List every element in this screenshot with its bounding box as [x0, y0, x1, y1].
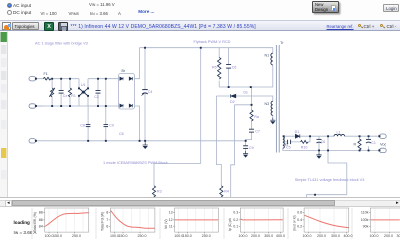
wire: output cap C6b stubs — [318, 136, 320, 150]
output capacitor C12 (polarized) — [366, 139, 371, 143]
junction at (60.2,105.1) — [60, 105, 62, 107]
capacitor CX1 — [59, 91, 64, 94]
svg-text:Tr: Tr — [280, 41, 284, 45]
wire: varistor stubs — [51, 79, 53, 106]
junction at (97.1,105.1) — [97, 105, 99, 107]
svg-text:11: 11 — [169, 224, 173, 228]
svg-text:150.0: 150.0 — [119, 234, 128, 238]
svg-text:R10: R10 — [301, 145, 308, 149]
plot 6: fs (Hz) — [361, 208, 400, 238]
wire: input bottom rail — [37, 105, 119, 107]
junction at (104.9,105.1) — [105, 105, 107, 107]
load resistor R11 — [358, 139, 361, 150]
junction at (282.7,135.3) — [283, 135, 285, 137]
ground (aux winding) — [270, 118, 275, 125]
snubber resistor R10 — [301, 140, 309, 143]
svg-text:0.2: 0.2 — [233, 218, 238, 222]
svg-text:0.2: 0.2 — [297, 224, 302, 228]
wire: bridge plus output to DC rail — [134, 48, 139, 79]
svg-text:Cx: Cx — [63, 94, 68, 98]
wire: input top rail — [51, 78, 79, 80]
varistor RV1 — [49, 88, 55, 97]
svg-text:88: 88 — [39, 211, 43, 215]
wire: Ra C7 chain down to ground — [246, 87, 252, 141]
ground (primary rail) — [143, 142, 148, 149]
ground (output cap) — [316, 152, 321, 159]
svg-text:R4: R4 — [224, 190, 229, 194]
wire: clamp node line to primary bottom — [219, 65, 273, 87]
aux winding N3 — [271, 101, 273, 115]
svg-text:Vo(: Vo( — [380, 142, 387, 147]
top parameter bar — [0, 0, 400, 20]
wire: choke stubs — [79, 79, 88, 106]
wire: cap CX1 stubs — [60, 79, 62, 106]
wire: clamp cap C6 stubs — [228, 48, 230, 87]
resistor Ra — [250, 110, 253, 121]
toolbar row — [0, 20, 400, 31]
junction at (314.1,193.8) — [314, 194, 316, 196]
capacitor C8 (Y-cap) — [86, 125, 91, 127]
junction at (367.6,135.3) — [368, 135, 370, 137]
svg-text:200.0: 200.0 — [384, 234, 393, 238]
svg-text:100k: 100k — [361, 218, 369, 222]
junction at (199.8,46.8) — [200, 47, 202, 49]
svg-text:86: 86 — [39, 218, 43, 222]
svg-text:Ip (C) pk: Ip (C) pk — [228, 218, 232, 231]
junction at (250.6,103.9) — [251, 104, 253, 106]
junction at (69.1,77.8) — [69, 78, 71, 80]
svg-text:R: R — [354, 143, 357, 147]
wire: FB tap line — [231, 105, 252, 198]
svg-text:7: 7 — [106, 218, 108, 222]
svg-text:(Iout or Id): (Iout or Id) — [292, 215, 296, 231]
junction at (327.1,135.3) — [327, 135, 329, 137]
terminal J1 (AC live) — [29, 77, 37, 81]
output inductor L1 — [334, 134, 345, 136]
junction at (367.6,149.5) — [368, 150, 370, 152]
junction at (309.1,135.3) — [309, 135, 311, 137]
junction at (51.2,77.8) — [51, 78, 53, 80]
svg-text:90k: 90k — [363, 224, 369, 228]
bulk capacitor C4 (polarized) — [142, 90, 148, 96]
svg-text:C5: C5 — [286, 145, 291, 149]
wire: secondary top rail — [283, 135, 379, 137]
common-mode element U1 (crossed arrows) — [78, 87, 89, 96]
plot 3: Vo (V) — [164, 208, 218, 238]
svg-text:U1: U1 — [81, 83, 86, 87]
svg-text:AC 1 stage filter with bridge: AC 1 stage filter with bridge V3 — [35, 42, 88, 46]
primary winding N1 — [271, 53, 273, 65]
terminal J2 (AC neutral) — [29, 104, 37, 108]
svg-text:C7: C7 — [255, 130, 260, 134]
svg-text:R1: R1 — [71, 94, 76, 98]
svg-text:L1: L1 — [337, 131, 341, 135]
svg-text:Ds: Ds — [244, 90, 248, 94]
junction at (138.6,139.9) — [139, 140, 141, 142]
terminal J4 (Vout-) — [378, 148, 386, 152]
svg-text:Total Eff. (%): Total Eff. (%) — [33, 212, 37, 232]
junction at (244.7,139.9) — [245, 140, 247, 142]
clamp capacitor C6 — [226, 65, 231, 69]
wire: primary ground rail — [37, 140, 246, 142]
wire: output cap C12 stubs — [368, 136, 370, 150]
terminal J5 (PE earth) — [29, 139, 37, 143]
capacitor C7 — [249, 129, 254, 132]
wire: clamp resistor R5 stubs — [218, 48, 220, 87]
sense resistor R3 — [152, 186, 155, 197]
wire: cap CX2 stubs — [97, 79, 99, 106]
wire: bulk cap C4 branch — [144, 48, 146, 141]
svg-text:C4: C4 — [148, 90, 153, 94]
terminal J3 (Vout+) — [378, 134, 386, 138]
svg-text:84: 84 — [39, 224, 43, 228]
wire: CS line down to sense resistor — [216, 96, 221, 197]
svg-text:300: 300 — [397, 234, 400, 238]
wire: secondary bottom rail — [283, 148, 379, 150]
junction at (144.2,139.9) — [144, 140, 146, 142]
svg-text:N3: N3 — [265, 102, 270, 106]
wire: DC bus top rail — [140, 48, 273, 54]
junction at (249.8,86.1) — [250, 86, 252, 88]
secondary winding N2 — [283, 136, 285, 148]
junction at (104.9,139.9) — [105, 140, 107, 142]
wire: load resistor stubs — [359, 136, 361, 150]
junction at (51.2,105.1) — [51, 105, 53, 107]
resistor R4 — [220, 186, 223, 197]
junction at (144.1,46.8) — [144, 47, 146, 49]
svg-text:200.0: 200.0 — [317, 234, 326, 238]
svg-text:C8: C8 — [80, 124, 85, 128]
junction at (97.1,77.8) — [97, 78, 99, 80]
junction at (69.1,105.1) — [69, 105, 71, 107]
svg-text:12: 12 — [169, 218, 173, 222]
output diode D1 — [295, 134, 299, 138]
svg-text:R5: R5 — [212, 66, 217, 70]
svg-text:400.0: 400.0 — [344, 234, 353, 238]
svg-text:Simple TL431 voltage feedback: Simple TL431 voltage feedback block V3 — [295, 178, 365, 182]
capacitor CX2 — [96, 91, 101, 94]
svg-text:C6: C6 — [119, 132, 124, 136]
svg-text:0.4: 0.4 — [297, 218, 302, 222]
svg-text:F1: F1 — [44, 72, 48, 76]
plot 1: Total Eff (%) — [33, 208, 89, 238]
svg-text:150.0: 150.0 — [183, 234, 192, 238]
svg-text:6: 6 — [106, 224, 108, 228]
Login button — [383, 4, 399, 12]
wire: feedback divider line — [307, 195, 347, 198]
wire: feedback tap from output — [328, 136, 347, 195]
svg-text:R3: R3 — [157, 190, 162, 194]
svg-text:150.0: 150.0 — [53, 234, 62, 238]
wire: Y-cap C8 branch — [87, 106, 89, 141]
svg-text:Vo (V): Vo (V) — [164, 219, 168, 229]
wire: Y-cap C9y branch — [105, 106, 107, 141]
clamp diode D2 — [231, 94, 236, 97]
svg-text:Ra: Ra — [254, 115, 259, 119]
wire: resistor R1 stubs — [69, 79, 71, 106]
fuse F1 — [44, 77, 51, 80]
snubber capacitor C5 — [288, 140, 291, 144]
junction at (227.7,86.1) — [228, 86, 230, 88]
plot 5: Iout or Id — [292, 208, 352, 238]
svg-text:13: 13 — [169, 211, 173, 215]
New Design button — [312, 1, 339, 13]
svg-text:C6: C6 — [321, 140, 326, 144]
svg-text:0.6: 0.6 — [297, 211, 302, 215]
svg-text:100.0: 100.0 — [370, 234, 379, 238]
svg-text:Br: Br — [122, 69, 126, 73]
junction at (318.1,149.5) — [318, 150, 320, 152]
svg-text:100.0: 100.0 — [303, 234, 312, 238]
svg-text:8: 8 — [106, 211, 108, 215]
output capacitor C6b — [317, 139, 322, 143]
svg-text:loading: loading — [14, 220, 31, 225]
svg-text:300.0: 300.0 — [264, 234, 273, 238]
wire: aux winding bottom to ground — [272, 115, 274, 117]
svg-text:D1: D1 — [295, 130, 300, 134]
bridge rectifier Br — [119, 74, 135, 110]
junction at (60.2,77.8) — [60, 78, 62, 80]
junction at (87.2,139.9) — [87, 140, 89, 142]
wire: C9 stubs — [245, 141, 247, 151]
left component palette strip — [0, 32, 8, 198]
junction at (104.9,77.8) — [105, 78, 107, 80]
wire: startup line from bus to PWM block — [154, 48, 201, 198]
wire: ground stub on rail — [144, 141, 146, 143]
plot 4: Ip pk (A) — [228, 208, 285, 238]
ground (C9) — [243, 151, 248, 158]
svg-text:C2: C2 — [94, 95, 99, 99]
svg-text:C1: C1 — [371, 141, 376, 145]
PLOTS — [14, 208, 400, 239]
svg-text:C9: C9 — [249, 146, 254, 150]
svg-text:Total Pd (W): Total Pd (W) — [100, 212, 104, 231]
svg-text:0.3: 0.3 — [233, 211, 238, 215]
junction at (327.1,149.5) — [327, 150, 329, 152]
svg-text:C9: C9 — [109, 124, 114, 128]
junction at (358.6,135.3) — [359, 135, 361, 137]
svg-text:N1: N1 — [265, 54, 270, 58]
wire: output snubber bypass — [284, 136, 310, 142]
wire: vertical connect at x=105.8 — [105, 79, 107, 106]
svg-text:250.0: 250.0 — [202, 234, 211, 238]
svg-text:250.0: 250.0 — [138, 234, 147, 238]
svg-text:0.1: 0.1 — [233, 224, 238, 228]
svg-text:400.0: 400.0 — [276, 234, 285, 238]
capacitor C9 — [243, 146, 248, 149]
svg-text:C6: C6 — [232, 66, 237, 70]
svg-text:110k: 110k — [361, 211, 369, 215]
clamp resistor R5 — [218, 58, 221, 80]
wire: bridge minus output to ground rail — [134, 106, 139, 141]
resistor R1 — [68, 88, 71, 97]
svg-text:300.0: 300.0 — [331, 234, 340, 238]
junction at (358.6,149.5) — [359, 150, 361, 152]
plot 2: Total Pd (W) — [100, 208, 154, 238]
capacitor C9y (Y-cap) — [104, 125, 109, 127]
svg-text:Flyback PWM-V RCD: Flyback PWM-V RCD — [194, 40, 231, 44]
wire: clamp diode line — [216, 96, 272, 101]
transformer Tr core — [276, 45, 279, 153]
svg-text:250.0: 250.0 — [72, 234, 81, 238]
svg-text:200.0: 200.0 — [251, 234, 260, 238]
svg-text:100.0: 100.0 — [239, 234, 248, 238]
wire: input terminal stubs — [37, 79, 44, 106]
wire: output ground stub — [318, 150, 320, 152]
bottom scrollbar — [0, 197, 400, 198]
svg-text:D2: D2 — [230, 100, 235, 104]
